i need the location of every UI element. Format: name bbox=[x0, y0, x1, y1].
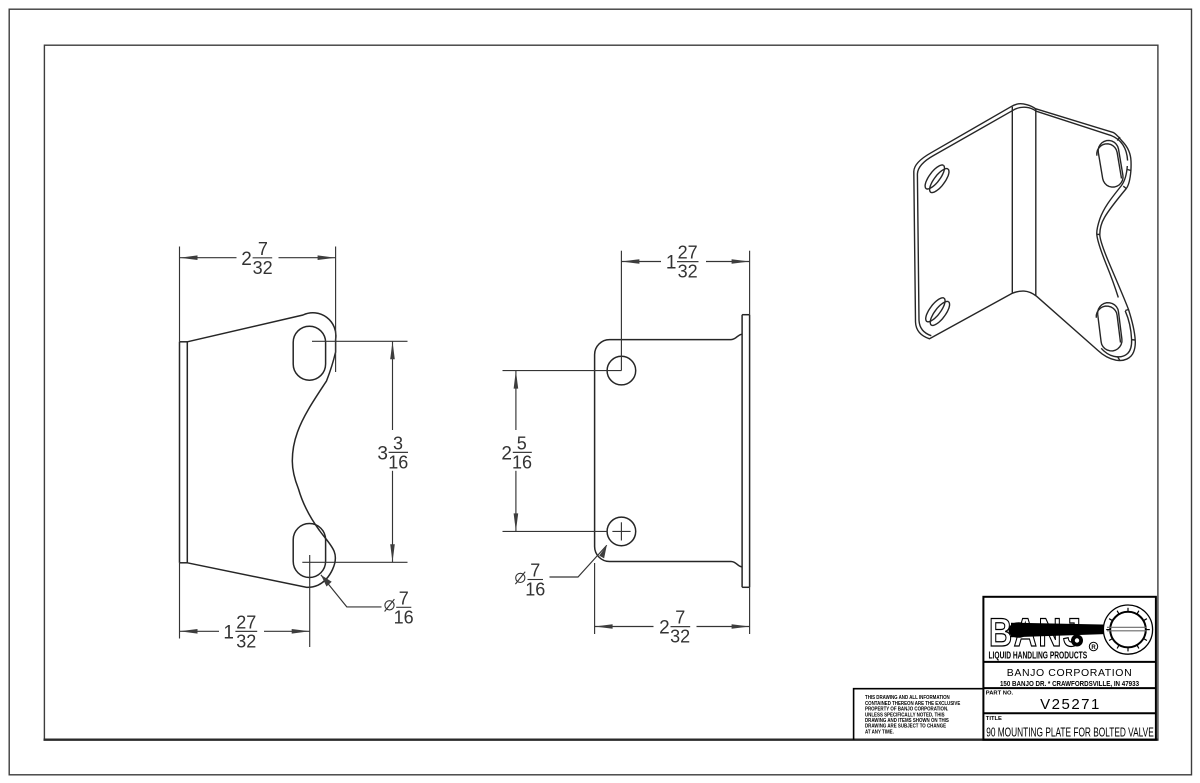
SIDE VIEW (middle) bbox=[595, 315, 750, 588]
svg-text:PART NO.: PART NO. bbox=[986, 691, 1014, 697]
iso inner edge top right bbox=[1036, 111, 1127, 160]
flange bottom tick bbox=[742, 586, 750, 588]
slot lower left view bbox=[293, 524, 325, 578]
iso hole upper near bbox=[925, 165, 944, 189]
dim line 2 5/16 bbox=[515, 371, 517, 430]
svg-text:CONTAINED THEREON ARE THE EXCL: CONTAINED THEREON ARE THE EXCLUSIVE bbox=[865, 701, 961, 707]
ext line left of dim 2 7/32 bbox=[179, 247, 181, 342]
iso slot lower opening bbox=[1098, 303, 1122, 351]
plate outline left view bbox=[187, 313, 336, 588]
label dia 7/16 front view bbox=[385, 599, 412, 611]
ext line slot top center bbox=[312, 340, 408, 342]
title block row line 2 bbox=[983, 687, 1156, 689]
ext line bottom dim right middle bbox=[749, 587, 751, 634]
svg-text:UNLESS SPECIFICALLY NOTED, THI: UNLESS SPECIFICALLY NOTED, THIS bbox=[865, 712, 945, 718]
dim line 2 7/32 bottom middle bbox=[595, 626, 654, 628]
svg-text:7: 7 bbox=[258, 239, 268, 259]
svg-text:5: 5 bbox=[517, 434, 527, 454]
dim line 1 27/32 top middle bbox=[621, 261, 661, 263]
iso bend line left bbox=[1011, 107, 1013, 293]
ext line bottom dim right (slot center) bbox=[309, 555, 311, 647]
flange right edge bbox=[749, 315, 751, 588]
iso hole upper far bbox=[930, 169, 949, 193]
leader line dia 7/16 left view bbox=[321, 575, 382, 607]
svg-text:R: R bbox=[1091, 645, 1096, 651]
TITLE BLOCK bbox=[854, 597, 1156, 740]
iso slot upper opening bbox=[1098, 141, 1123, 188]
ext line bottom dim left bbox=[179, 563, 181, 639]
ext line bottom dim left middle bbox=[594, 563, 596, 634]
svg-text:32: 32 bbox=[678, 262, 698, 282]
hole lower side view bbox=[607, 517, 636, 546]
dim line 3 3/16 bbox=[392, 341, 394, 430]
disclaimer text bbox=[865, 695, 961, 736]
svg-text:1: 1 bbox=[223, 622, 234, 643]
svg-text:27: 27 bbox=[236, 612, 256, 632]
ext line hole center vertical bbox=[620, 251, 622, 371]
slot upper left view bbox=[293, 326, 325, 380]
plate left edge bottom tick bbox=[180, 562, 188, 564]
svg-text:1: 1 bbox=[666, 253, 677, 274]
banjo body bbox=[1103, 605, 1152, 654]
ext line flange right top bbox=[749, 251, 751, 315]
svg-text:3: 3 bbox=[393, 434, 403, 454]
leader line dia 7/16 middle bbox=[550, 545, 607, 577]
dimensions side view bbox=[503, 251, 750, 634]
svg-text:32: 32 bbox=[253, 258, 273, 278]
title block texts bbox=[986, 667, 1154, 740]
svg-text:TITLE: TITLE bbox=[986, 716, 1002, 722]
iso slot lower far edge bbox=[1096, 306, 1120, 343]
arrowheads front view bbox=[180, 255, 198, 260]
BANJO logo bbox=[989, 605, 1153, 661]
svg-text:16: 16 bbox=[394, 607, 414, 627]
iso inner edge lower wrap bbox=[1101, 311, 1131, 357]
svg-text:BANJO CORPORATION: BANJO CORPORATION bbox=[1007, 667, 1133, 679]
banjo neck bbox=[1011, 623, 1108, 638]
svg-text:DRAWING ARE SUBJECT TO CHANGE: DRAWING ARE SUBJECT TO CHANGE bbox=[865, 723, 947, 729]
ext line upper hole horizontal bbox=[503, 370, 622, 372]
iso outer outline bbox=[914, 104, 1136, 361]
ext line right of dim 2 7/32 bbox=[335, 247, 337, 373]
svg-text:16: 16 bbox=[388, 452, 408, 472]
iso hole lower near bbox=[926, 298, 945, 322]
svg-text:90 MOUNTING PLATE FOR BOLTED V: 90 MOUNTING PLATE FOR BOLTED VALVE bbox=[986, 726, 1154, 740]
iso slot upper far edge bbox=[1097, 144, 1122, 179]
svg-text:16: 16 bbox=[525, 580, 545, 600]
svg-text:7: 7 bbox=[530, 561, 540, 581]
iso inner edge concave bbox=[1097, 166, 1128, 298]
iso inner edge apex bbox=[1013, 107, 1036, 111]
svg-text:7: 7 bbox=[399, 588, 409, 608]
iso bend line right bbox=[1035, 109, 1037, 296]
ISOMETRIC VIEW bbox=[914, 104, 1136, 361]
iso inner edge left bbox=[917, 110, 1013, 336]
svg-text:PROPERTY OF BANJO CORPORATION.: PROPERTY OF BANJO CORPORATION. bbox=[865, 706, 948, 712]
plate left edge outer line bbox=[179, 342, 181, 563]
svg-text:7: 7 bbox=[675, 608, 685, 628]
svg-text:32: 32 bbox=[670, 627, 690, 647]
flange left edge bbox=[741, 315, 743, 588]
svg-text:V25271: V25271 bbox=[1040, 696, 1101, 713]
plate left edge top tick bbox=[180, 341, 188, 343]
dimensions front view bbox=[180, 247, 408, 648]
flange top tick bbox=[742, 314, 750, 316]
dim text side view bbox=[666, 243, 698, 282]
svg-text:DRAWING AND ITEMS SHOWN ON THI: DRAWING AND ITEMS SHOWN ON THIS bbox=[865, 718, 950, 724]
title block outer box bbox=[983, 597, 1156, 740]
arrowheads side view bbox=[621, 259, 639, 264]
side view plate outline bbox=[595, 334, 743, 567]
ext line slot bottom center bbox=[302, 561, 407, 563]
svg-text:3: 3 bbox=[377, 443, 388, 464]
cross lower hole bbox=[612, 530, 630, 532]
dim text front view bbox=[241, 239, 272, 278]
hole upper side view bbox=[607, 356, 636, 385]
dim line 2 7/32 bbox=[180, 257, 237, 259]
svg-text:2: 2 bbox=[241, 249, 252, 270]
svg-text:16: 16 bbox=[512, 452, 532, 472]
dim line 1 27/32 bbox=[180, 630, 220, 632]
ext line lower hole horizontal bbox=[503, 530, 608, 532]
svg-text:150 BANJO DR. * CRAWFORDSVIL: 150 BANJO DR. * CRAWFORDSVILLE, IN 47933 bbox=[1000, 680, 1139, 688]
svg-text:LIQUID HANDLING PRODUCTS: LIQUID HANDLING PRODUCTS bbox=[989, 649, 1088, 661]
iso hole lower far bbox=[930, 301, 949, 325]
svg-text:THIS DRAWING AND ALL INFORMATI: THIS DRAWING AND ALL INFORMATION bbox=[865, 695, 950, 701]
svg-text:32: 32 bbox=[236, 631, 256, 651]
banjo strings bbox=[1107, 626, 1147, 628]
svg-text:2: 2 bbox=[501, 443, 512, 464]
label dia 7/16 middle bbox=[515, 572, 543, 584]
svg-text:27: 27 bbox=[678, 243, 698, 263]
svg-text:AT ANY TIME.: AT ANY TIME. bbox=[865, 729, 894, 735]
iso thickness ticks bbox=[1097, 137, 1135, 361]
registered mark bbox=[1089, 642, 1097, 650]
disclaimer box bbox=[854, 689, 984, 740]
title block row line 1 bbox=[983, 661, 1156, 663]
title block row line 3 bbox=[983, 712, 1156, 714]
svg-text:2: 2 bbox=[659, 618, 670, 639]
